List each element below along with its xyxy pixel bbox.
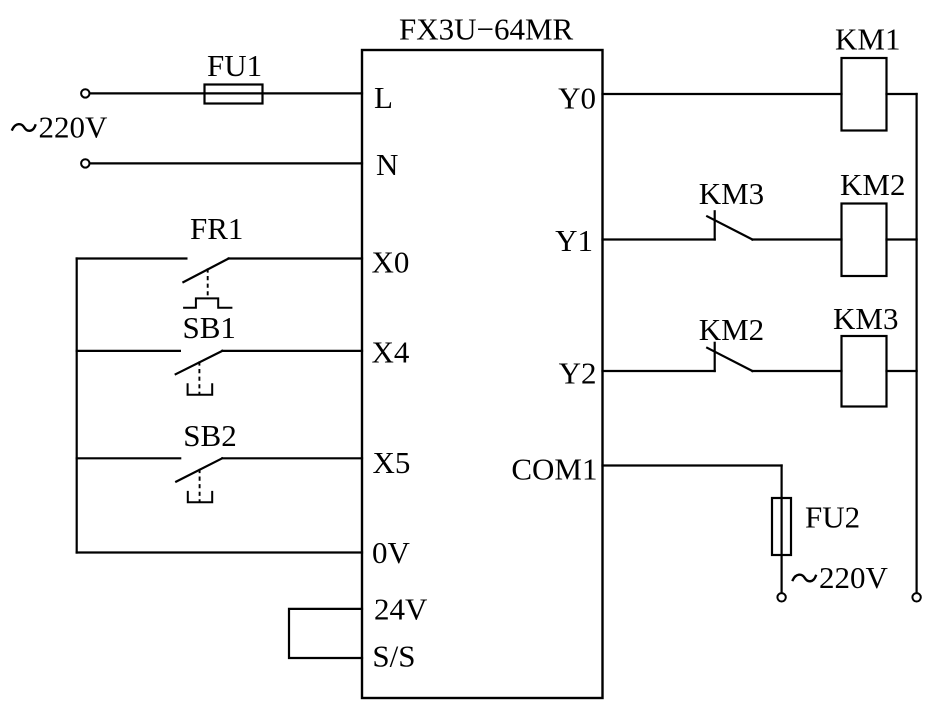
svg-text:SB2: SB2 — [183, 418, 236, 453]
coil KM1 — [842, 58, 887, 131]
svg-text:KM2: KM2 — [840, 167, 905, 202]
FR1 thermal element symbol — [184, 298, 231, 307]
wire Y1 contact to coil — [752, 238, 841, 240]
contact KM2 blade — [707, 348, 752, 371]
wire X4 right segment — [222, 350, 362, 352]
wire Y2 contact to coil — [752, 370, 841, 372]
coil KM3 — [842, 336, 887, 407]
label ~220V output — [793, 560, 889, 595]
svg-text:L: L — [374, 80, 393, 115]
svg-text:24V: 24V — [374, 592, 428, 627]
SB2 actuator dashed link — [199, 469, 201, 502]
jumper wire 24V to S/S — [289, 609, 362, 658]
svg-text:Y2: Y2 — [559, 356, 597, 391]
svg-text:KM3: KM3 — [699, 176, 764, 211]
wire Y2 to contact — [603, 370, 715, 372]
svg-text:Y0: Y0 — [558, 81, 596, 116]
wire X5 right segment — [222, 457, 362, 459]
svg-text:X0: X0 — [372, 245, 410, 280]
wire Y2 coil to bus — [887, 370, 917, 372]
wire COM1 down — [780, 466, 782, 593]
fuse FU2 — [772, 498, 791, 555]
wire X5 left segment — [77, 457, 181, 459]
svg-text:0V: 0V — [372, 535, 411, 570]
wire Y1 coil to bus — [887, 238, 917, 240]
wire COM1 horizontal — [603, 464, 782, 466]
svg-text:FX3U−64MR: FX3U−64MR — [399, 12, 574, 47]
svg-text:KM2: KM2 — [699, 312, 764, 347]
svg-text:Y1: Y1 — [555, 223, 593, 258]
SB1 pushbutton cap — [188, 384, 213, 395]
svg-text:KM1: KM1 — [835, 22, 900, 57]
svg-text:X4: X4 — [372, 335, 410, 370]
right bus wire — [915, 94, 917, 593]
svg-text:220V: 220V — [819, 560, 889, 595]
contact KM2 post — [714, 343, 716, 371]
SB2 pushbutton cap — [188, 492, 212, 502]
svg-text:X5: X5 — [373, 445, 411, 480]
wire X0 left segment — [77, 257, 187, 259]
wire Y0 coil to bus — [887, 93, 917, 95]
FR1 actuator dashed link — [207, 268, 209, 298]
label ~220V input — [12, 110, 108, 145]
wire X4 left segment — [77, 350, 180, 352]
wire N input — [91, 162, 363, 164]
svg-text:S/S: S/S — [372, 639, 415, 674]
svg-text:FR1: FR1 — [190, 211, 243, 246]
svg-text:SB1: SB1 — [183, 310, 236, 345]
svg-text:KM3: KM3 — [833, 301, 898, 336]
contact SB2 blade — [176, 458, 222, 481]
contact KM3 post — [714, 211, 716, 239]
contact FR1 blade — [183, 259, 228, 283]
svg-text:COM1: COM1 — [511, 452, 597, 487]
terminal neutral input — [81, 159, 89, 167]
wire L input — [91, 92, 363, 94]
terminal phase input — [81, 89, 89, 97]
wire X0 right segment — [229, 257, 362, 259]
wire 0V — [77, 551, 362, 553]
left bus wire — [76, 259, 78, 553]
wire Y1 to contact — [603, 238, 715, 240]
fuse FU1 — [205, 85, 263, 104]
coil KM2 — [842, 204, 887, 277]
wire Y0 to coil — [603, 93, 842, 95]
PLC box FX3U-64MR — [362, 50, 603, 698]
svg-text:N: N — [376, 147, 398, 182]
contact KM3 blade — [707, 216, 752, 239]
terminal right bus — [912, 593, 920, 601]
svg-text:FU2: FU2 — [805, 500, 860, 535]
SB1 actuator dashed link — [198, 361, 200, 394]
svg-text:220V: 220V — [39, 110, 109, 145]
terminal COM1 output — [777, 593, 785, 601]
svg-text:FU1: FU1 — [207, 48, 262, 83]
contact SB1 blade — [176, 351, 223, 374]
